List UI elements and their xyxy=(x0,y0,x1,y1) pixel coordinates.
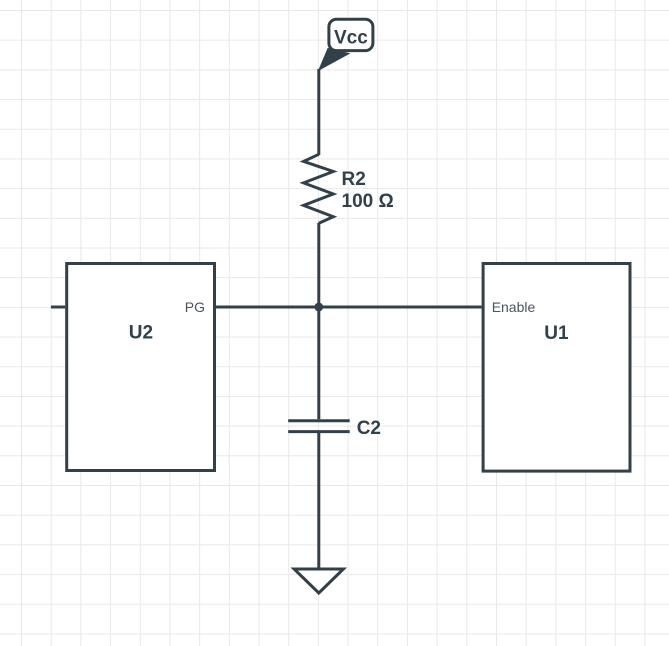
svg-text:U1: U1 xyxy=(544,323,569,344)
wire Vcc to resistor R2 top xyxy=(317,69,320,155)
svg-text:Enable: Enable xyxy=(492,299,536,315)
svg-text:100 Ω: 100 Ω xyxy=(342,191,394,212)
wire node junction to capacitor C2 top plate xyxy=(317,307,320,419)
ground symbol triangle xyxy=(294,569,343,593)
svg-text:R2: R2 xyxy=(342,169,366,190)
wire capacitor C2 bottom plate to ground xyxy=(317,433,320,569)
capacitor C2 top plate xyxy=(288,419,350,422)
capacitor C2 bottom plate xyxy=(288,430,350,433)
svg-text:Vcc: Vcc xyxy=(334,28,368,49)
node junction dot xyxy=(314,303,323,312)
svg-text:C2: C2 xyxy=(357,418,381,439)
Vcc power flag box xyxy=(329,19,373,50)
svg-text:U2: U2 xyxy=(129,322,153,343)
wire resistor R2 bottom to node junction xyxy=(317,223,320,307)
IC U2 box xyxy=(67,264,215,471)
svg-text:PG: PG xyxy=(185,299,205,315)
resistor R2 zigzag xyxy=(304,154,334,223)
wire stub on U2 left xyxy=(51,306,65,309)
IC U1 box xyxy=(483,264,630,472)
wire U2 PG pin to U1 Enable pin (horizontal net) xyxy=(216,306,482,309)
Vcc power flag callout tail xyxy=(319,49,349,71)
